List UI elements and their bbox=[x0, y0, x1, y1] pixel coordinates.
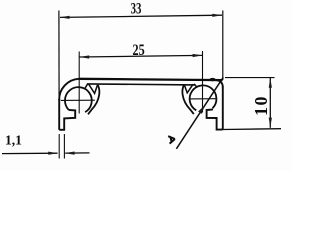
arrowhead right of dim 33 bbox=[212, 14, 222, 17]
extension line bottom for 10 (runs from foot bottom) bbox=[222, 128, 281, 131]
leader line for detail A bbox=[176, 77, 223, 149]
arrowhead left of dim 33 bbox=[60, 16, 70, 19]
dimension line 1,1 left segment bbox=[2, 152, 58, 154]
arrowhead bottom of dim 10 bbox=[269, 118, 272, 128]
leader arrowhead bbox=[198, 105, 205, 114]
profile left rounded cap arc bbox=[59, 79, 79, 101]
extension line below left edge for 1,1 bbox=[58, 134, 60, 159]
dimension line 25 bbox=[79, 55, 202, 57]
profile top surface bbox=[79, 79, 223, 80]
arrowhead pointing right at 1,1 bbox=[48, 152, 58, 155]
extension/centerline of left boss for 25 bbox=[78, 52, 80, 114]
right boss screw circle (open at bottom slot) bbox=[190, 85, 217, 110]
arrowhead top of dim 10 bbox=[269, 78, 272, 88]
extension/centerline of right boss for 25 bbox=[202, 51, 204, 113]
channel roof (underside of top plate) bbox=[87, 84, 195, 85]
dimension line 10 (vertical, right) bbox=[269, 78, 271, 128]
detail label A (rotated glyph strokes) bbox=[168, 136, 175, 143]
left boss wall outer face bbox=[88, 85, 99, 114]
svg-text:25: 25 bbox=[133, 42, 145, 59]
svg-text:1,1: 1,1 bbox=[5, 134, 22, 149]
extension line top for 10 bbox=[225, 77, 275, 79]
right claw inner face bbox=[194, 84, 197, 88]
svg-text:10: 10 bbox=[251, 95, 271, 116]
ink blotch on top surface (scan artifact) bbox=[209, 78, 215, 81]
arrowhead left of dim 25 bbox=[79, 55, 89, 58]
svg-text:33: 33 bbox=[131, 1, 142, 18]
left boss horizontal centerline bbox=[61, 99, 95, 101]
left claw inner face bbox=[85, 84, 88, 89]
left V-notch between claw and wall bbox=[89, 84, 98, 93]
dimension line 1,1 right segment bbox=[65, 152, 89, 154]
arrowhead pointing left at 1,1 bbox=[65, 152, 75, 155]
extension line left for 33 (merges with profile left edge) bbox=[58, 11, 60, 100]
extension line below foot inner edge for 1,1 bbox=[63, 134, 65, 159]
profile top-right corner arc bbox=[216, 80, 223, 87]
left boss screw circle (open at bottom slot) bbox=[65, 87, 92, 112]
dimension line 33 bbox=[60, 15, 222, 17]
arrowhead right of dim 25 bbox=[193, 54, 203, 57]
right boss horizontal centerline bbox=[189, 98, 216, 100]
right boss wall outer face bbox=[182, 85, 193, 114]
profile left edge, foot, ledge and bottom jaw bbox=[59, 99, 75, 130]
extension line right for 33 (continues down to profile corner) bbox=[222, 11, 224, 81]
profile right edge, foot, ledge and bottom jaw bbox=[207, 87, 223, 130]
right V-notch between claw and wall bbox=[184, 84, 193, 93]
